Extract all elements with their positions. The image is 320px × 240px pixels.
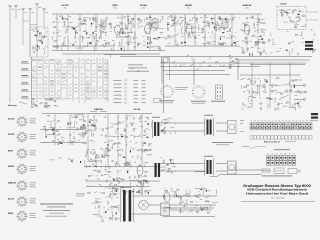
IF transformer Fi2b [222,19,228,28]
arrow note [250,146,266,149]
speaker LS2 [228,161,237,174]
bus junction box [162,58,169,63]
strip left note [240,119,244,122]
output stage internals [279,9,306,28]
waveband switch matrix [32,57,109,105]
smoothing choke Dr1 [155,163,157,177]
tube envelope B2 EF89 [115,25,121,35]
speaker caption [212,141,233,144]
right edge coil [311,113,318,115]
rail above matrix [52,45,112,47]
svg-text:ELL80: ELL80 [134,109,141,111]
tone control mesh [91,197,120,222]
IF transformer Fi2 [152,19,158,28]
RF mesh d [241,14,266,56]
bus drop stubs [167,57,169,61]
strip pin numbers [251,120,253,123]
fuse Si1 [262,169,270,172]
RF mesh b [112,14,165,54]
potentiometer P1 rear view [216,85,223,99]
RF mesh c [165,14,240,46]
bus right cluster [229,59,240,69]
svg-text:ECH81: ECH81 [8,134,15,136]
heater pin numbers [267,153,269,156]
title footnote [241,200,315,203]
FM tuner internals [32,29,47,54]
left rail components [45,128,62,145]
output transformer Tr3 [207,160,209,174]
mains plug [288,169,297,174]
strip lower squares [250,136,312,139]
top right feed lines [240,59,310,61]
bridge rectifier Gr1 [139,200,149,210]
waveband labels [22,61,29,64]
mains caption [262,175,292,178]
svg-text:ECC85: ECC85 [61,5,69,7]
svg-text:Nr. u. Schaltbild: Nr. u. Schaltbild [271,197,284,200]
speaker wires [160,122,205,124]
bus switch contacts [190,64,193,66]
table footer box [154,99,162,103]
notes text block [40,203,73,206]
speaker feed components lower [163,159,176,174]
svg-text:Antenne: Antenne [8,104,18,107]
antenna link wires [23,20,30,22]
speaker LS1 [228,121,237,134]
svg-text:Röhrenmeßleiste: Röhrenmeßleiste [264,140,281,143]
rotary switch S2 rear view [192,86,205,99]
svg-text:(B2): (B2) [113,7,116,9]
svg-text:ELL80: ELL80 [280,4,287,6]
output transformer Tr2 [207,120,209,135]
svg-text:ELL80: ELL80 [8,199,15,201]
mains switch caption [195,170,206,173]
svg-text:EABC80: EABC80 [243,4,252,7]
antenna input lines [9,5,11,103]
output terminals [303,84,305,86]
phono tube envelope [164,192,170,202]
AF amplifier mesh left [40,114,152,166]
antenna symbols [9,5,12,7]
RF mesh a [52,14,262,52]
mains wires [228,169,262,171]
heater wiring strip [267,156,296,166]
tube envelope B3 ECH81 [145,24,151,34]
rectifier side components [138,180,151,194]
IF transformer Fi1 [101,20,106,28]
svg-text:ECC85: ECC85 [8,119,15,121]
interconnect bus lines [104,54,136,56]
svg-text:EM80: EM80 [8,213,14,215]
electrolytic block C90 [161,203,170,216]
tube voltage table [114,80,146,104]
phono labels [76,193,85,196]
AF dense lower [85,150,112,168]
svg-text:EF89: EF89 [112,5,118,7]
antenna labels [12,8,14,11]
phono preamp mesh [160,189,218,214]
IF transformer Fi3 [154,122,156,136]
tube measuring strip [250,123,312,130]
phono footnote row [163,215,215,218]
tube envelope B4 EBF89 [186,25,192,35]
bus to AF vertical [163,59,165,114]
magic eye tube EM80 envelope [137,165,143,176]
svg-text:(B3): (B3) [142,7,145,9]
rotary note text [175,86,188,89]
AF dense upper right [75,114,101,138]
right top mesh [258,30,318,56]
tube envelope B5 EABC80 [244,25,250,35]
driver mesh [85,170,160,196]
power wiring [132,195,160,197]
heater caption [274,148,290,151]
AF preamp mesh [240,63,302,111]
svg-text:(B5): (B5) [245,7,248,9]
svg-text:EABC80: EABC80 [94,108,103,111]
svg-text:EBF89: EBF89 [8,166,15,168]
svg-text:Hartmannsdorf bei Karl-Marx-St: Hartmannsdorf bei Karl-Marx-Stadt [246,192,308,196]
svg-text:EBF89: EBF89 [185,5,193,7]
speaker feed components upper [161,118,176,134]
primary side components [109,177,122,196]
svg-text:ECH81: ECH81 [140,5,148,7]
AF amplifier mesh right [84,114,160,168]
svg-text:(B1): (B1) [63,7,66,9]
filter choke block [305,41,313,43]
wires to right edge [306,11,318,13]
measurement notes text [128,64,143,67]
bus verticals to switch views [161,59,163,85]
svg-text:(B4): (B4) [187,7,190,9]
output stage dashed box [277,7,306,30]
mains switch S3 [216,174,221,177]
switch matrix bottom cluster [31,98,58,108]
rotary switch S1 rear view [161,85,174,98]
svg-text:EABC80: EABC80 [8,182,17,185]
FM tuner unit dashed box [30,27,48,57]
mains transformer Tr1 [123,190,126,221]
voltage selector [274,168,284,174]
